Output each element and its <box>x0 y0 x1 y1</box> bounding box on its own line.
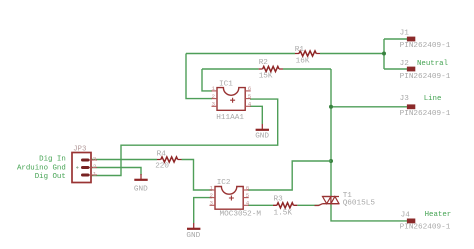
svg-text:3: 3 <box>210 200 214 207</box>
label R3 value 1.5K <box>274 210 293 218</box>
svg-text:J2: J2 <box>400 60 410 68</box>
label J4 name <box>401 211 411 219</box>
svg-text:2: 2 <box>210 192 214 199</box>
wire net Line: horizontal through R2 from IC1 pin1 vertical <box>202 68 331 70</box>
net label Arduino Gnd <box>17 165 66 173</box>
svg-text:IC1: IC1 <box>219 81 233 89</box>
svg-text:1: 1 <box>212 85 216 92</box>
IC1 pin 2 stub <box>212 93 218 100</box>
svg-text:16K: 16K <box>296 58 310 66</box>
svg-text:6: 6 <box>248 85 252 92</box>
net label Dig In <box>39 156 66 164</box>
label IC2 name <box>217 179 231 187</box>
resistor R3 <box>273 203 297 208</box>
op-amp/optocoupler IC1 body <box>217 88 245 111</box>
junction at Line vertical / J3 wire <box>329 105 333 109</box>
svg-text:1: 1 <box>93 171 97 178</box>
wire JP3 pin3 (Dig In) to R4 <box>91 159 157 161</box>
svg-text:Arduino Gnd: Arduino Gnd <box>17 165 66 173</box>
label IC2 value MOC3052-M <box>220 211 262 219</box>
svg-text:J3: J3 <box>400 95 410 103</box>
svg-text:3: 3 <box>212 101 216 108</box>
label R4 value 220 <box>155 163 169 171</box>
label R4 name <box>157 150 167 158</box>
label IC1 name <box>219 81 233 89</box>
svg-text:R3: R3 <box>274 195 284 203</box>
wire to J1 <box>384 38 407 40</box>
net label Heater <box>425 211 452 219</box>
label J1 name <box>400 30 410 38</box>
optotriac IC2 body <box>215 187 243 210</box>
connector pad J3 <box>407 104 415 109</box>
JP3 pin 2 pad <box>76 163 97 170</box>
svg-text:4: 4 <box>246 200 250 207</box>
label J2 value PIN262409-1 <box>400 73 451 81</box>
wire net Line: main vertical to triac MT2 <box>330 69 332 197</box>
wire R3 to triac gate <box>297 204 319 206</box>
net label Neutral <box>417 60 449 68</box>
wire to J2 <box>384 68 407 70</box>
wire IC2 pin4 to R3 <box>248 204 273 206</box>
triac T1 <box>315 197 340 206</box>
svg-text:3: 3 <box>93 156 97 163</box>
svg-text:Dig In: Dig In <box>39 156 66 164</box>
wire triac MT1 to J4 (Heater) <box>331 204 407 221</box>
label R1 name <box>295 46 305 54</box>
label J2 name <box>400 60 410 68</box>
svg-text:R2: R2 <box>259 59 269 67</box>
svg-text:PIN262409-1: PIN262409-1 <box>400 110 451 118</box>
label R3 name <box>274 195 284 203</box>
wire JP3 pin2 (Arduino Gnd) to GND <box>91 168 141 176</box>
wire IC2 pin6 to Line vertical <box>248 161 331 190</box>
JP3 pin 1 pad <box>81 171 97 178</box>
label JP3 name <box>73 145 86 153</box>
svg-text:15K: 15K <box>259 73 273 81</box>
label J1 value PIN262409-1 <box>400 42 451 50</box>
net label Line <box>424 95 442 103</box>
svg-text:5: 5 <box>248 93 252 100</box>
ground GND near JP3 <box>134 174 148 193</box>
svg-text:PIN262409-1: PIN262409-1 <box>400 73 451 81</box>
svg-text:R4: R4 <box>157 150 167 158</box>
IC2 pin 2 stub <box>210 192 216 199</box>
svg-text:Q6015L5: Q6015L5 <box>343 199 376 207</box>
svg-text:220: 220 <box>155 163 169 171</box>
svg-text:2: 2 <box>93 163 97 170</box>
svg-text:4: 4 <box>248 101 252 108</box>
wire IC1 pin5 to JP3 pin1 (Dig Out) <box>91 99 278 175</box>
svg-text:GND: GND <box>255 133 269 141</box>
svg-text:J1: J1 <box>400 30 410 38</box>
net label Dig Out <box>35 173 66 181</box>
svg-text:JP3: JP3 <box>73 145 86 153</box>
svg-text:J4: J4 <box>401 211 411 219</box>
IC1 pin 5 stub <box>245 93 252 100</box>
IC2 pin 4 stub <box>243 200 250 207</box>
IC1 pin 4 stub <box>245 101 252 108</box>
svg-text:GND: GND <box>186 232 200 240</box>
ground GND under IC2 pin2 <box>186 223 200 240</box>
resistor R4 <box>157 157 182 162</box>
svg-text:GND: GND <box>134 185 148 193</box>
svg-text:1.5K: 1.5K <box>274 210 293 218</box>
IC2 pin 6 stub <box>243 184 250 191</box>
svg-text:5: 5 <box>246 192 250 199</box>
label R2 value 15K <box>259 73 273 81</box>
IC2 pin 3 stub <box>210 200 216 207</box>
label IC1 value H11AA1 <box>216 114 244 122</box>
ground GND under IC1 pin4 <box>255 124 269 141</box>
label J3 value PIN262409-1 <box>400 110 451 118</box>
wire R4 to IC2 pin1 <box>182 160 213 191</box>
IC2 pin 1 stub <box>210 184 216 191</box>
label T1 name <box>343 192 353 200</box>
label J3 name <box>400 95 410 103</box>
connector pad J1 <box>407 37 415 42</box>
connector pad J4 <box>407 219 415 224</box>
svg-text:6: 6 <box>246 184 250 191</box>
wire from Line vertical to J3 <box>331 106 407 108</box>
connector pad J2 <box>407 67 415 72</box>
wire IC1 pin4 to GND <box>250 106 262 124</box>
wire net Neutral: vertical at J1/J2 split <box>383 39 385 69</box>
label R1 value 16K <box>296 58 310 66</box>
svg-text:MOC3052-M: MOC3052-M <box>220 211 262 219</box>
IC2 pin 5 stub <box>243 192 250 199</box>
wire net Neutral: vertical from R1 wire down to IC1 pin2 <box>186 54 212 99</box>
junction at R1 wire / J1-J2 vertical <box>382 52 386 56</box>
svg-text:PIN262409-1: PIN262409-1 <box>400 42 451 50</box>
svg-text:PIN262409-1: PIN262409-1 <box>400 224 451 232</box>
label R2 name <box>259 59 269 67</box>
resistor R2 <box>259 66 283 71</box>
svg-text:Heater: Heater <box>425 211 452 219</box>
IC1 pin 1 stub <box>212 85 218 92</box>
junction at Line vertical / IC2 pin6 wire <box>329 159 333 163</box>
connector JP3 body <box>72 153 91 183</box>
resistor R1 <box>295 51 320 56</box>
svg-text:H11AA1: H11AA1 <box>216 114 244 122</box>
svg-text:Line: Line <box>424 95 442 103</box>
wire IC2 pin2 to GND <box>194 198 212 223</box>
svg-text:2: 2 <box>212 93 216 100</box>
wire net Line: vertical down to IC1 pin1 <box>202 69 212 91</box>
label J4 value PIN262409-1 <box>400 224 451 232</box>
svg-text:1: 1 <box>210 184 214 191</box>
svg-text:Neutral: Neutral <box>417 60 449 68</box>
wire net Neutral: horizontal through R1 <box>186 53 384 55</box>
IC1 pin 6 stub <box>245 85 252 92</box>
svg-text:IC2: IC2 <box>217 179 231 187</box>
JP3 pin 3 pad <box>81 156 97 163</box>
label T1 value Q6015L5 <box>343 199 376 207</box>
IC1 pin 3 stub <box>212 101 218 108</box>
svg-text:R1: R1 <box>295 46 305 54</box>
svg-text:Dig Out: Dig Out <box>35 173 66 181</box>
